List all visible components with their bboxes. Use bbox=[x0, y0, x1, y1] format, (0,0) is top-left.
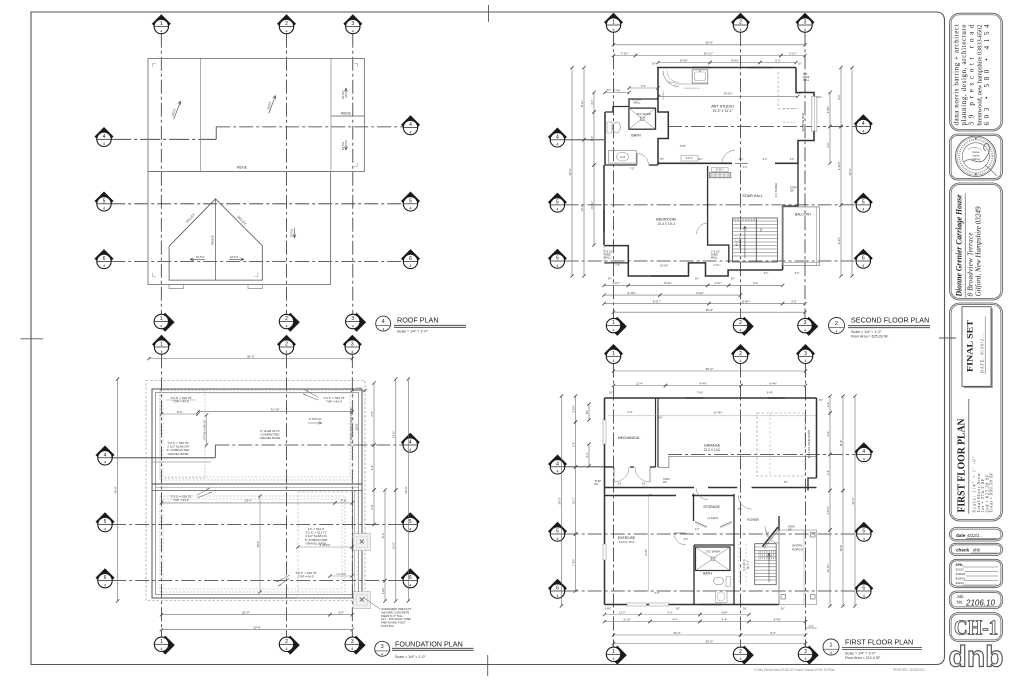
stairs treads (2fl) bbox=[733, 218, 778, 262]
svg-text:3: 3 bbox=[351, 316, 354, 322]
upper slab inner dashed bbox=[163, 393, 350, 477]
bath north walls bbox=[605, 99, 658, 112]
grid line 6 (1fl) bbox=[565, 590, 857, 592]
svg-text:4′-4″: 4′-4″ bbox=[743, 167, 748, 169]
first floor plan group bbox=[548, 344, 922, 665]
foundation wall inner bbox=[156, 393, 359, 595]
kitchenette counter bbox=[663, 71, 679, 87]
shower 2nd floor bbox=[629, 108, 656, 129]
svg-text:TOP = 94.0′: TOP = 94.0′ bbox=[173, 400, 189, 404]
svg-text:5: 5 bbox=[409, 198, 412, 204]
studio south wall bbox=[658, 162, 732, 164]
check panel bbox=[950, 543, 1003, 555]
svg-text:10:5.0: 10:5.0 bbox=[341, 90, 345, 99]
svg-text:4/6/21: 4/6/21 bbox=[956, 581, 965, 585]
svg-text:4: 4 bbox=[161, 647, 163, 651]
stepped south exterior wall bbox=[604, 246, 782, 276]
job number panel bbox=[950, 591, 1003, 609]
grid line 5 (roof) bbox=[111, 203, 403, 205]
svg-text:rev.: rev. bbox=[956, 562, 964, 567]
svg-text:14'-0″: 14'-0″ bbox=[580, 204, 584, 211]
svg-text:date: date bbox=[956, 533, 966, 538]
svg-text:4: 4 bbox=[556, 208, 558, 212]
svg-text:5: 5 bbox=[556, 529, 559, 535]
top exterior wall bbox=[657, 67, 796, 69]
svg-text:2'-9″: 2'-9″ bbox=[370, 411, 374, 417]
grid bubble 3 top (2fl) bbox=[796, 13, 815, 32]
grid line 3 (roof) bbox=[352, 34, 354, 315]
svg-text:4: 4 bbox=[352, 324, 354, 328]
svg-text:9'-0¼″: 9'-0¼″ bbox=[590, 201, 594, 208]
footing dashed outline bbox=[146, 381, 365, 601]
svg-text:3: 3 bbox=[351, 342, 354, 348]
svg-text:2'-0¾″: 2'-0¾″ bbox=[715, 281, 722, 285]
stamp seal bbox=[956, 136, 997, 177]
balcony bbox=[783, 207, 820, 266]
grid line 4 right segment (2fl) bbox=[668, 126, 856, 128]
svg-text:3: 3 bbox=[381, 644, 384, 650]
svg-text:14'-0″: 14'-0″ bbox=[839, 440, 843, 447]
svg-text:4: 4 bbox=[740, 359, 742, 363]
svg-text:4: 4 bbox=[409, 448, 411, 452]
svg-text:1: 1 bbox=[612, 20, 615, 26]
svg-text:DN: DN bbox=[790, 190, 794, 193]
grid bubble 6 left (2fl) bbox=[548, 249, 567, 269]
svg-text:8'-0″: 8'-0″ bbox=[381, 533, 385, 539]
svg-text:2'-6½″: 2'-6½″ bbox=[612, 281, 619, 285]
svg-text:dnb: dnb bbox=[949, 641, 1004, 674]
svg-text:TOP = 94.0′: TOP = 94.0′ bbox=[298, 575, 314, 579]
grid line 1 (roof) bbox=[160, 34, 162, 315]
west exterior wall (1fl) bbox=[604, 398, 606, 605]
grid bubble 5 right (fnd) bbox=[401, 512, 420, 532]
svg-text:8'-4 5/8″ R: 8'-4 5/8″ R bbox=[740, 236, 742, 247]
svg-text:1: 1 bbox=[829, 642, 832, 648]
mid foundation wall band bottom bbox=[152, 490, 362, 492]
svg-text:14'-0″: 14'-0″ bbox=[392, 431, 396, 438]
svg-text:4: 4 bbox=[409, 527, 411, 531]
svg-text:1: 1 bbox=[160, 316, 163, 322]
svg-text:8 Broadview Terrace: 8 Broadview Terrace bbox=[967, 233, 975, 297]
svg-text:30'-0″: 30'-0″ bbox=[557, 497, 561, 504]
svg-text:12'-4″: 12'-4″ bbox=[636, 381, 643, 385]
svg-text:GRAVEL BASE: GRAVEL BASE bbox=[168, 452, 189, 456]
svg-text:3'-8½″: 3'-8½″ bbox=[721, 610, 728, 614]
svg-text:4'-10½″: 4'-10½″ bbox=[837, 161, 841, 170]
svg-text:4: 4 bbox=[381, 653, 383, 657]
grid bubble 5 left (1fl) bbox=[548, 522, 567, 542]
shower (1fl) bbox=[696, 547, 731, 571]
svg-text:BATH: BATH bbox=[703, 572, 712, 576]
svg-text:2: 2 bbox=[739, 20, 742, 26]
svg-text:2'-1¾″: 2'-1¾″ bbox=[789, 51, 797, 55]
svg-text:BEDROOM: BEDROOM bbox=[656, 218, 676, 222]
svg-text:9'-0″: 9'-0″ bbox=[341, 499, 347, 503]
svg-text:4: 4 bbox=[862, 449, 865, 455]
svg-text:Floor Area = 625.28 SF: Floor Area = 625.28 SF bbox=[851, 335, 889, 339]
svg-text:16'-0″: 16'-0″ bbox=[839, 545, 843, 552]
roof upper block outline bbox=[148, 59, 364, 172]
svg-text:FOUNDATION PLAN: FOUNDATION PLAN bbox=[395, 640, 463, 649]
svg-text:4'-4″: 4'-4″ bbox=[672, 617, 677, 621]
svg-text:KNEE: KNEE bbox=[803, 77, 810, 79]
svg-text:4: 4 bbox=[352, 29, 354, 33]
svg-text:9'-4¾″: 9'-4¾″ bbox=[769, 381, 777, 385]
svg-text:4: 4 bbox=[805, 657, 807, 661]
svg-text:3′-1½″: 3′-1½″ bbox=[685, 156, 692, 160]
mid band inner line bbox=[156, 486, 359, 488]
svg-text:3: 3 bbox=[804, 351, 807, 357]
garage drop edge line bbox=[152, 461, 211, 463]
svg-text:4: 4 bbox=[104, 527, 106, 531]
svg-text:GARAGE: GARAGE bbox=[704, 444, 721, 448]
roof plan title bbox=[376, 316, 391, 331]
grid line 6 (2fl) bbox=[565, 260, 857, 262]
fnd dim 23-4 bbox=[162, 502, 336, 504]
grid bubble 6 right (fnd) bbox=[401, 568, 420, 588]
svg-text:WALL: WALL bbox=[711, 257, 718, 260]
svg-text:10:5.0: 10:5.0 bbox=[230, 255, 239, 259]
grid bubble 2 bottom (roof) bbox=[279, 313, 300, 332]
svg-text:8'-11″: 8'-11″ bbox=[580, 100, 584, 107]
svg-text:8'-4 3/8″ R: 8'-4 3/8″ R bbox=[743, 559, 746, 570]
stair direction arrow bbox=[744, 226, 746, 258]
grid bubble 1 top (roof) bbox=[152, 14, 171, 33]
svg-text:4: 4 bbox=[613, 28, 615, 32]
svg-text:9'-0″: 9'-0″ bbox=[770, 631, 775, 635]
second floor plan group bbox=[548, 13, 930, 339]
svg-text:22-0 X 13-0: 22-0 X 13-0 bbox=[704, 448, 721, 452]
svg-text:13-0 X 15-4: 13-0 X 15-4 bbox=[619, 540, 635, 544]
svg-text:4'-8½″: 4'-8½″ bbox=[826, 106, 830, 113]
foundation plan title bbox=[375, 641, 390, 656]
toilet (1fl) bbox=[714, 577, 724, 585]
grid bubble 5 left (fnd) bbox=[96, 512, 115, 532]
svg-text:2: 2 bbox=[739, 649, 742, 655]
svg-text:6: 6 bbox=[103, 256, 106, 262]
svg-text:5½″: 5½″ bbox=[585, 410, 589, 414]
title block group bbox=[949, 13, 1004, 673]
grid bubble 3 bottom (1fl) bbox=[798, 646, 819, 665]
svg-text:WALL: WALL bbox=[634, 101, 642, 105]
first floor plan title bbox=[823, 639, 839, 655]
grid bubble 6 right (1fl) bbox=[854, 579, 873, 599]
svg-text:30'-0″: 30'-0″ bbox=[705, 41, 713, 45]
foyer door arc bbox=[738, 496, 752, 510]
svg-text:4: 4 bbox=[410, 207, 412, 211]
stair arrow (1fl) bbox=[768, 553, 770, 582]
svg-text:6: 6 bbox=[409, 256, 412, 262]
svg-text:10:5.0: 10:5.0 bbox=[341, 141, 345, 150]
grid bubble 1 bottom (roof) bbox=[154, 313, 175, 332]
svg-text:4: 4 bbox=[556, 264, 558, 268]
svg-text:8'-6½″: 8'-6½″ bbox=[731, 58, 739, 62]
garage door arc bbox=[696, 488, 708, 500]
entry porch bbox=[779, 530, 817, 605]
svg-text:10'-1½″: 10'-1½″ bbox=[826, 564, 830, 573]
fnd bottom dim 30-0 bbox=[162, 629, 353, 631]
svg-text:2'-0″: 2'-0″ bbox=[809, 625, 814, 628]
svg-text:RIDGE: RIDGE bbox=[341, 112, 351, 116]
storage room bbox=[693, 494, 695, 522]
svg-text:4'-0″: 4'-0″ bbox=[826, 142, 830, 147]
svg-text:26'-0″: 26'-0″ bbox=[673, 631, 680, 635]
grid bubble 1 top (fnd) bbox=[152, 335, 171, 354]
stair shaft hatch bbox=[710, 173, 731, 178]
grid bubble 1 bottom (2fl) bbox=[606, 317, 627, 336]
fnd dim 6-2 bbox=[162, 413, 199, 415]
svg-text:(9)-1″ T: (9)-1″ T bbox=[747, 560, 750, 569]
grid line 2 (1fl) bbox=[740, 364, 742, 648]
leader arrows mid-left bbox=[197, 488, 212, 498]
svg-text:Scale = 1/4″ = 1′-0″: Scale = 1/4″ = 1′-0″ bbox=[851, 330, 882, 334]
bath south wall w/ door bbox=[605, 164, 637, 166]
svg-text:2′-4″: 2′-4″ bbox=[763, 159, 768, 161]
svg-text:4: 4 bbox=[286, 350, 288, 354]
grid bubble 5 left (roof) bbox=[95, 192, 114, 212]
svg-text:2'-9″: 2'-9″ bbox=[370, 504, 374, 510]
studio door arc bbox=[722, 150, 735, 163]
grid bubble 4 right (fnd) bbox=[401, 433, 420, 452]
registration tick bottom center bbox=[487, 655, 489, 676]
svg-text:24 2X8 16: 24 2X8 16 bbox=[663, 90, 665, 100]
svg-text:1: 1 bbox=[160, 639, 163, 645]
gable hip outline bbox=[169, 199, 262, 280]
svg-text:30'-0″: 30'-0″ bbox=[851, 497, 855, 504]
eave notch right bbox=[248, 285, 262, 289]
svg-text:14¾″: 14¾″ bbox=[817, 96, 822, 99]
svg-text:4: 4 bbox=[409, 440, 412, 446]
svg-text:6'-0″: 6'-0″ bbox=[655, 592, 660, 595]
grid bubble 2 top (fnd) bbox=[277, 335, 296, 354]
svg-text:G:\My Drive\Jobs\2106.10 Guest: G:\My Drive\Jobs\2106.10 Guest House\210… bbox=[754, 668, 835, 672]
svg-text:20'-1¾″: 20'-1¾″ bbox=[704, 51, 713, 55]
svg-text:6: 6 bbox=[862, 586, 865, 592]
svg-text:30'-0″: 30'-0″ bbox=[253, 626, 261, 630]
svg-text:4: 4 bbox=[351, 647, 353, 651]
svg-text:5: 5 bbox=[104, 519, 107, 525]
svg-text:6: 6 bbox=[556, 586, 559, 592]
svg-text:1¾″: 1¾″ bbox=[798, 63, 802, 66]
bath walls (1fl) bbox=[694, 545, 734, 605]
svg-text:16'-4″: 16'-4″ bbox=[256, 541, 260, 548]
fnd left dim 30-0 bbox=[117, 379, 119, 601]
grid bubble 3 top (roof) bbox=[343, 14, 362, 33]
svg-text:MECHANICAL: MECHANICAL bbox=[618, 436, 640, 440]
svg-text:2'-4″: 2'-4″ bbox=[826, 470, 830, 475]
svg-text:4'-6″: 4'-6″ bbox=[370, 465, 374, 471]
right strip wall bbox=[352, 491, 354, 599]
2fl top dims bbox=[614, 44, 806, 46]
grid line 3 (fnd) bbox=[351, 354, 353, 637]
svg-text:PORCH: PORCH bbox=[792, 548, 803, 552]
east wall stair hall bbox=[783, 163, 798, 206]
bath vanity bbox=[609, 150, 637, 163]
stamp panel bbox=[950, 134, 1003, 180]
svg-text:4/22/2...: 4/22/2... bbox=[967, 533, 983, 538]
svg-text:4: 4 bbox=[104, 461, 106, 465]
svg-text:DN: DN bbox=[663, 481, 667, 484]
1fl left dims bbox=[561, 396, 563, 606]
fnd top dim 30-0 bbox=[149, 358, 352, 360]
svg-text:9'-0″: 9'-0″ bbox=[590, 136, 594, 141]
svg-text:10:5.0: 10:5.0 bbox=[196, 255, 205, 259]
svg-text:4: 4 bbox=[382, 327, 384, 331]
svg-text:7′-0″: 7′-0″ bbox=[630, 169, 635, 171]
fnd bottom dim 5-0 bbox=[330, 614, 352, 616]
svg-text:9'-4¾″: 9'-4¾″ bbox=[699, 381, 707, 385]
grid bubble 1 top (1fl) bbox=[604, 344, 623, 363]
svg-text:4: 4 bbox=[103, 142, 105, 146]
fnd dim 31-10 bbox=[198, 411, 352, 413]
mid foundation wall band top bbox=[152, 483, 362, 485]
svg-text:9′ PITCH: 9′ PITCH bbox=[309, 417, 321, 421]
grid line 3 (1fl) bbox=[805, 364, 807, 648]
grid bubble 2 top (1fl) bbox=[731, 344, 750, 363]
svg-text:RIDGE: RIDGE bbox=[210, 235, 214, 245]
svg-text:6'-3½″: 6'-3½″ bbox=[837, 237, 841, 244]
svg-text:4: 4 bbox=[863, 594, 865, 598]
svg-text:6 15 30 16 0 1.5: 6 15 30 16 0 1.5 bbox=[684, 88, 701, 90]
grid bubble 6 left (1fl) bbox=[548, 579, 567, 599]
svg-text:3-0: 3-0 bbox=[618, 482, 622, 486]
svg-text:Scale = 1/4″ = 1′-0″: Scale = 1/4″ = 1′-0″ bbox=[395, 655, 426, 659]
grid bubble 2 top (2fl) bbox=[731, 13, 750, 32]
svg-text:2: 2 bbox=[285, 21, 288, 27]
architect info panel bbox=[950, 13, 1003, 131]
grid line 2 (fnd) bbox=[286, 354, 288, 637]
lower slab inner dashed bbox=[163, 499, 342, 589]
svg-text:7'-4½″: 7'-4½″ bbox=[571, 559, 575, 566]
svg-text:DN: DN bbox=[595, 483, 599, 486]
final set box bbox=[962, 307, 991, 387]
svg-text:30'-0″: 30'-0″ bbox=[568, 168, 572, 175]
stair hall walls bbox=[708, 166, 729, 263]
svg-text:6: 6 bbox=[104, 575, 107, 581]
svg-text:WALL: WALL bbox=[604, 257, 611, 260]
svg-text:4: 4 bbox=[557, 537, 559, 541]
stairs (1fl) bbox=[755, 544, 777, 585]
registration tick top center bbox=[488, 5, 490, 22]
svg-text:5'-4″: 5'-4″ bbox=[571, 442, 575, 447]
knee wall lines bbox=[604, 262, 628, 264]
svg-text:3: 3 bbox=[804, 320, 807, 326]
svg-text:2'-4½″: 2'-4½″ bbox=[613, 88, 620, 92]
grid bubble 6 left (roof) bbox=[95, 249, 114, 269]
bath door arc bbox=[637, 154, 649, 166]
fnd interior v dims bbox=[206, 415, 208, 445]
svg-text:4: 4 bbox=[104, 583, 106, 587]
registration tick left middle bbox=[21, 338, 44, 340]
svg-text:FIRST FLOOR PLAN: FIRST FLOOR PLAN bbox=[957, 418, 968, 513]
svg-text:4: 4 bbox=[613, 657, 615, 661]
south exterior wall (1fl) bbox=[605, 604, 780, 606]
svg-text:5'-6½″: 5'-6½″ bbox=[571, 405, 575, 412]
grid line 4 left segment (1fl) bbox=[565, 466, 612, 468]
svg-text:4: 4 bbox=[862, 208, 864, 212]
svg-text:ROOF PLAN: ROOF PLAN bbox=[397, 315, 439, 324]
mech door arcs bbox=[614, 467, 629, 482]
svg-text:FOYER: FOYER bbox=[747, 518, 759, 522]
svg-text:BALCONY: BALCONY bbox=[795, 213, 812, 217]
svg-text:2: 2 bbox=[285, 639, 288, 645]
grid line 4 right segment (1fl) bbox=[668, 454, 857, 456]
svg-text:Scale = 1/4″ = 1′-0″: Scale = 1/4″ = 1′-0″ bbox=[397, 330, 428, 334]
grid line 4 right segment (fnd) bbox=[215, 444, 403, 446]
svg-text:7'-6¾″: 7'-6¾″ bbox=[713, 264, 720, 267]
svg-text:4: 4 bbox=[410, 130, 412, 134]
svg-text:10:5.0: 10:5.0 bbox=[290, 228, 294, 237]
2fl bath top dims bbox=[605, 92, 629, 94]
grid line 6 (roof) bbox=[111, 260, 403, 262]
svg-text:6: 6 bbox=[862, 256, 865, 262]
svg-text:4″ TOS = 520.75′: 4″ TOS = 520.75′ bbox=[202, 420, 206, 440]
grid line 4 left segment (fnd) bbox=[112, 457, 215, 459]
ovhd door dashed bbox=[757, 413, 805, 476]
svg-text:9-0 X 8-0 OVHD DOOR: 9-0 X 8-0 OVHD DOOR bbox=[807, 430, 811, 458]
svg-text:4: 4 bbox=[410, 264, 412, 268]
grid bubble 5 right (1fl) bbox=[854, 522, 873, 542]
svg-text:RIDGE: RIDGE bbox=[237, 166, 247, 170]
svg-text:4: 4 bbox=[556, 461, 559, 467]
grid bubble 1 top (2fl) bbox=[604, 13, 623, 32]
svg-text:FIRST FLOOR PLAN: FIRST FLOOR PLAN bbox=[845, 637, 913, 646]
fnd interior dim 9-0 / 4-11 bbox=[298, 546, 352, 548]
entry door arc bbox=[778, 516, 780, 530]
client info panel bbox=[950, 183, 1003, 300]
svg-text:DN: DN bbox=[760, 228, 763, 232]
pier P2 hatched bbox=[354, 592, 371, 609]
svg-text:5: 5 bbox=[862, 200, 865, 206]
svg-text:4: 4 bbox=[863, 457, 865, 461]
svg-text:4: 4 bbox=[286, 324, 288, 328]
svg-text:4'-11 1/2″: 4'-11 1/2″ bbox=[320, 543, 331, 547]
svg-text:4'-4″: 4'-4″ bbox=[627, 410, 632, 414]
interior footing left room bbox=[160, 390, 205, 478]
svg-text:4′-0 SLIDER: 4′-0 SLIDER bbox=[774, 183, 778, 197]
svg-text:4: 4 bbox=[613, 328, 615, 332]
fnd top-right dim 2-9 bbox=[352, 390, 365, 392]
fnd bottom dim 26-0 bbox=[162, 614, 331, 616]
svg-text:check: check bbox=[956, 548, 969, 553]
svg-text:10'-8¼″: 10'-8¼″ bbox=[741, 299, 750, 303]
grid bubble 6 left (fnd) bbox=[96, 568, 115, 588]
svg-text:4: 4 bbox=[613, 359, 615, 363]
registration tick right middle bbox=[939, 337, 956, 339]
svg-text:10'-7″: 10'-7″ bbox=[571, 497, 575, 504]
svg-text:4: 4 bbox=[557, 594, 559, 598]
bedroom door arc bbox=[697, 223, 708, 234]
svg-text:1: 1 bbox=[160, 342, 163, 348]
foundation wall outer bbox=[152, 389, 362, 598]
svg-text:STORAGE: STORAGE bbox=[703, 505, 720, 509]
grid bubble 4 right (roof) bbox=[401, 115, 420, 135]
svg-text:8'-4½″: 8'-4½″ bbox=[680, 58, 688, 62]
svg-text:30'-0″: 30'-0″ bbox=[706, 639, 714, 643]
grid bubble 4 left (1fl) bbox=[548, 455, 567, 474]
svg-text:1: 1 bbox=[160, 21, 163, 27]
studio west wall with notch bbox=[658, 68, 668, 166]
grid bubble 4 left (2fl) bbox=[548, 128, 567, 148]
svg-text:3½″: 3½″ bbox=[658, 416, 662, 420]
1fl top dims bbox=[614, 370, 806, 372]
svg-text:4: 4 bbox=[740, 28, 742, 32]
svg-text:4: 4 bbox=[836, 330, 838, 334]
svg-text:12'-0″: 12'-0″ bbox=[619, 611, 625, 614]
svg-text:5'-0″: 5'-0″ bbox=[338, 611, 344, 615]
1fl right dims bbox=[829, 396, 831, 413]
svg-text:4: 4 bbox=[740, 328, 742, 332]
